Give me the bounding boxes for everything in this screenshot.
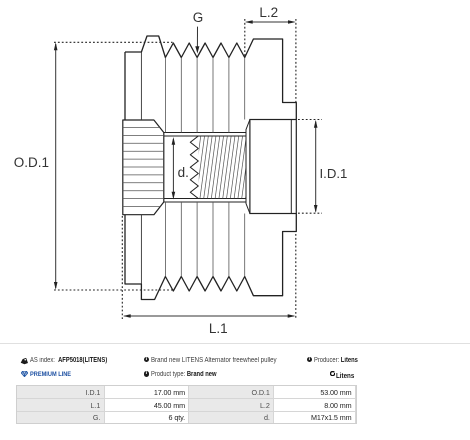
separator line bbox=[0, 343, 470, 344]
L.1 dimension line bbox=[124, 315, 294, 317]
svg-text:d.: d. bbox=[178, 165, 189, 180]
pulley outline bottom bbox=[125, 52, 296, 300]
svg-text:L.1: L.1 bbox=[209, 321, 228, 336]
litens logo bbox=[330, 371, 335, 376]
inner race cylinder bbox=[250, 120, 296, 214]
bore outer lines bbox=[164, 132, 246, 134]
L.1 extension dotted right bbox=[295, 234, 297, 319]
d. dimension arrows bbox=[172, 139, 174, 197]
cylinder right inner edge bbox=[290, 120, 292, 214]
svg-text:O.D.1: O.D.1 bbox=[14, 155, 49, 170]
I.D.1 dimension line bbox=[315, 122, 317, 212]
pulley outline top bbox=[125, 36, 296, 120]
O.D.1 dimension line bbox=[55, 44, 57, 288]
svg-text:G: G bbox=[193, 10, 204, 25]
I.D.1 extension dotted bottom bbox=[298, 212, 322, 214]
L.2 dimension line bbox=[247, 21, 295, 23]
hub block bbox=[123, 120, 164, 215]
L.2 extension dotted right bbox=[295, 19, 297, 103]
L.2 extension dotted left bbox=[244, 19, 246, 58]
G leader arrow bbox=[196, 27, 198, 48]
L.1 extension dotted left bbox=[121, 216, 123, 319]
O.D.1 bottom extension dotted bbox=[54, 289, 173, 291]
info row 2: premium line bbox=[21, 371, 28, 377]
thread zigzag bbox=[190, 136, 198, 199]
groove verticals top bbox=[165, 58, 244, 133]
I.D.1 extension dotted top bbox=[298, 119, 322, 121]
svg-text:I.D.1: I.D.1 bbox=[320, 166, 348, 181]
bore inner lines bbox=[164, 135, 246, 137]
info row 1: AS index bbox=[20, 358, 28, 365]
svg-text:L.2: L.2 bbox=[259, 5, 278, 20]
spec table bbox=[16, 385, 357, 424]
hub hatch lines bbox=[120, 128, 166, 207]
groove verticals bottom bbox=[165, 202, 244, 277]
O.D.1 top extension dotted bbox=[54, 41, 173, 43]
front plate inner edge verticals bbox=[140, 52, 142, 120]
cylinder left chamfer face bbox=[246, 120, 250, 214]
